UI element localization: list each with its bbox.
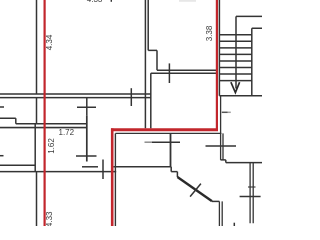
red boundary right vertical x216.9 bbox=[216, 0, 218, 129]
diagonal wall bbox=[177, 177, 212, 201]
door tick arm faint left part bbox=[145, 141, 153, 143]
red boundary vertical x112.2 bbox=[111, 128, 114, 226]
room bottom wall y165.2 bbox=[0, 164, 35, 166]
svg-text:1.72: 1.72 bbox=[59, 128, 75, 137]
wall y166.8 segment b bbox=[114, 166, 172, 168]
wall y163 to right edge bbox=[226, 162, 262, 164]
wall jog at y50.4 bbox=[148, 50, 157, 70]
inner black vertical x115.4 bbox=[114, 133, 116, 226]
door tick at x103 bbox=[102, 160, 104, 180]
wall top-center vertical left bbox=[144, 0, 146, 128]
svg-text:4.33: 4.33 bbox=[87, 0, 103, 4]
door tick on diagonal wall bbox=[190, 184, 201, 197]
door tick arm y142.2 bbox=[152, 141, 180, 143]
door tick cross at x86.8 on mid wall bbox=[77, 98, 96, 115]
wall mid horizontal y97.6 bottom edge bbox=[0, 97, 151, 99]
wall vertical x86.8 bbox=[86, 115, 88, 161]
left edge stub y107 bbox=[0, 106, 4, 108]
door stub at y112.3 on x221 wall bbox=[222, 111, 228, 113]
door tick on right room wall bbox=[240, 196, 261, 198]
stairwell bottom wall y95.8 bbox=[219, 95, 262, 97]
svg-text:1.62: 1.62 bbox=[47, 138, 56, 154]
wall left vertical upper bbox=[36, 0, 38, 124]
wall below stairs double vertical bbox=[221, 96, 223, 160]
wall mid horizontal y94 top edge bbox=[0, 93, 151, 95]
door tick at y146 on x221 wall bbox=[206, 145, 237, 147]
step down to long wall bbox=[171, 167, 177, 177]
black wall under red band bbox=[115, 132, 221, 134]
red boundary left vertical x44.6 bbox=[43, 0, 45, 226]
wall vertical x170.5 below red band bbox=[170, 133, 172, 167]
wall vertical lower right of shaft bbox=[150, 73, 152, 128]
long bottom wall y171.6 bbox=[0, 171, 116, 173]
door tick arm at y156 bbox=[76, 155, 97, 157]
stair arrowhead bbox=[231, 82, 240, 92]
red boundary horizontal band y129.7 bbox=[111, 128, 218, 131]
stair treads bbox=[220, 35, 252, 81]
wall y118.3 jog left bbox=[0, 118, 16, 124]
wall y166.8 segment a bbox=[82, 166, 98, 168]
wall y127.6 bottom edge bbox=[0, 127, 87, 129]
corridor wall y73.2 bottom edge bbox=[151, 72, 217, 74]
stair arrow tail and shaft bbox=[236, 16, 262, 88]
wall left vertical lower bbox=[36, 171, 38, 226]
wall jog below stairs bbox=[221, 160, 226, 163]
wall left vertical room bbox=[34, 124, 36, 172]
wall y201.4 segment bbox=[212, 200, 220, 202]
bottom double wall verticals bbox=[219, 201, 222, 226]
ghost of cut text top bbox=[179, 0, 196, 2]
svg-text:3.38: 3.38 bbox=[205, 25, 214, 41]
wall y123.8 top edge bbox=[16, 123, 87, 125]
right room wall double vertical bbox=[250, 163, 253, 224]
svg-text:4.33: 4.33 bbox=[45, 211, 54, 226]
bottom stub x234.3 bbox=[233, 223, 235, 226]
door jamb dash right room bbox=[248, 186, 256, 188]
tiny tick top x111.3 bbox=[110, 0, 112, 2]
stair left wall bbox=[218, 0, 220, 96]
wall top-center vertical right upper bbox=[147, 0, 149, 50]
door tick at x131.3 on mid wall bbox=[130, 88, 132, 106]
stair right wall corner bbox=[252, 28, 262, 96]
door tick at x169.4 on corridor wall bbox=[168, 63, 170, 83]
left edge stub y155.7 bbox=[0, 155, 4, 157]
svg-text:4.34: 4.34 bbox=[45, 34, 54, 50]
corridor wall y70.3 top edge bbox=[157, 69, 216, 71]
